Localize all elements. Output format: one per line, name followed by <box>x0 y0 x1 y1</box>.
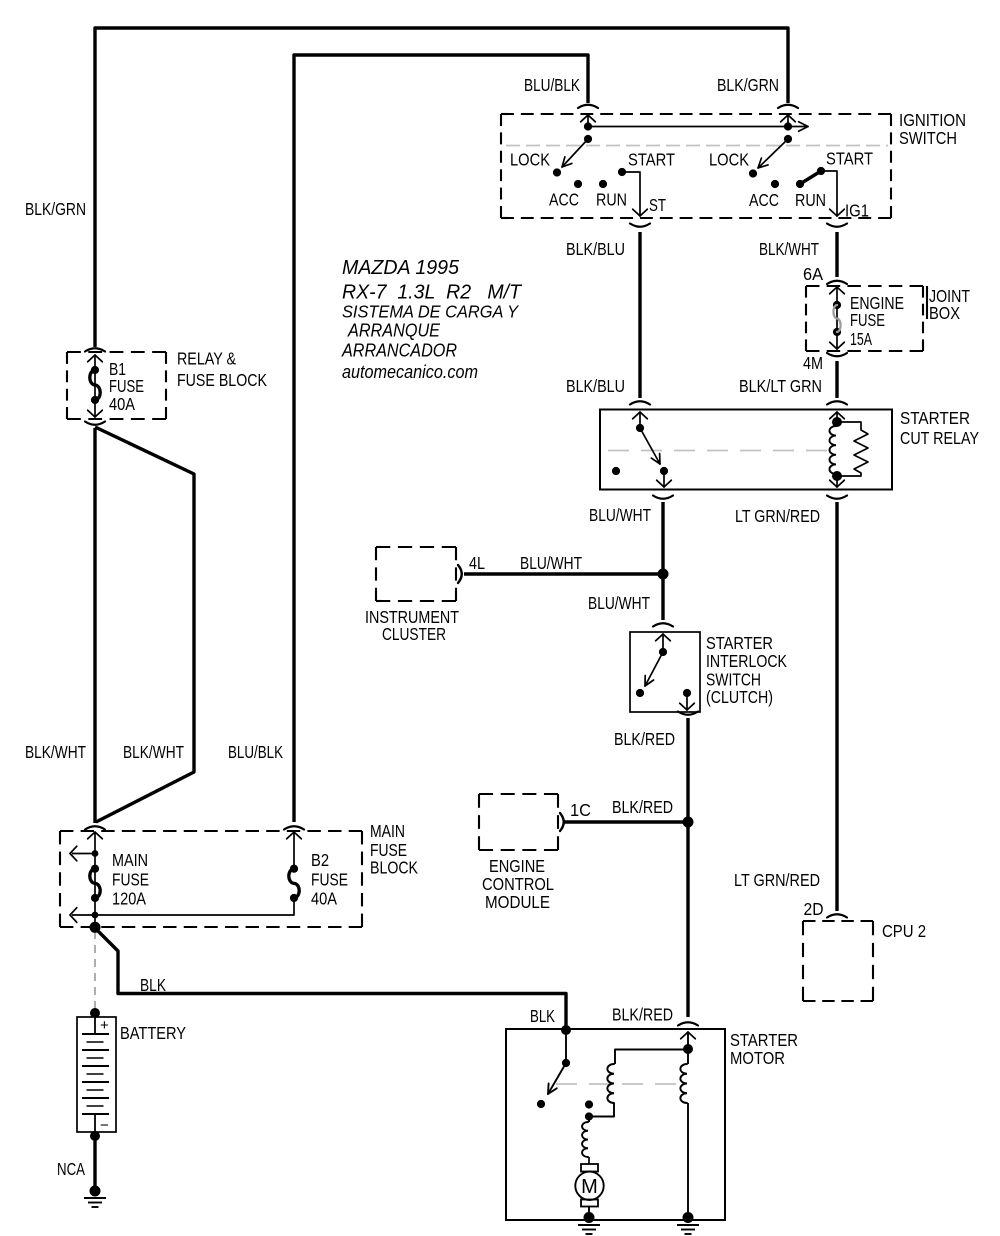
svg-text:START: START <box>826 149 873 169</box>
svg-text:1C: 1C <box>570 800 591 820</box>
svg-text:MOTOR: MOTOR <box>730 1048 785 1068</box>
svg-text:INTERLOCK: INTERLOCK <box>706 651 787 671</box>
svg-text:6A: 6A <box>803 264 823 284</box>
svg-text:B2: B2 <box>311 850 329 870</box>
svg-text:BLU/WHT: BLU/WHT <box>588 593 650 613</box>
svg-text:BLK/WHT: BLK/WHT <box>25 742 86 762</box>
svg-text:BLK/RED: BLK/RED <box>612 1005 673 1025</box>
svg-text:FUSE BLOCK: FUSE BLOCK <box>177 370 267 390</box>
svg-text:RUN: RUN <box>795 190 826 210</box>
svg-text:M: M <box>581 1176 598 1198</box>
svg-text:RX-7 1.3L R2 M/T: RX-7 1.3L R2 M/T <box>342 281 522 304</box>
svg-text:BLK/GRN: BLK/GRN <box>25 199 86 219</box>
svg-text:automecanico.com: automecanico.com <box>342 361 478 382</box>
svg-text:CONTROL: CONTROL <box>482 874 554 894</box>
svg-text:IG1: IG1 <box>845 201 869 221</box>
svg-text:2D: 2D <box>804 899 824 919</box>
svg-text:BLOCK: BLOCK <box>370 858 418 878</box>
svg-text:NCA: NCA <box>57 1159 85 1179</box>
svg-text:RUN: RUN <box>596 190 627 210</box>
svg-text:ARRANQUE: ARRANQUE <box>347 321 441 341</box>
svg-text:CLUSTER: CLUSTER <box>382 624 446 644</box>
svg-text:−: − <box>100 1117 109 1134</box>
svg-text:BLU/BLK: BLU/BLK <box>524 75 580 95</box>
svg-text:4M: 4M <box>803 353 823 373</box>
svg-text:STARTER: STARTER <box>900 408 970 428</box>
svg-text:FUSE: FUSE <box>850 310 885 330</box>
svg-text:BLK/WHT: BLK/WHT <box>759 239 819 259</box>
svg-text:+: + <box>100 1017 109 1034</box>
svg-text:IGNITION: IGNITION <box>899 110 966 130</box>
svg-text:FUSE: FUSE <box>311 870 348 890</box>
svg-text:START: START <box>628 150 675 170</box>
svg-text:15A: 15A <box>850 329 872 349</box>
svg-text:BLK: BLK <box>530 1006 555 1026</box>
svg-text:BLU/WHT: BLU/WHT <box>589 505 651 525</box>
svg-text:ARRANCADOR: ARRANCADOR <box>341 341 457 361</box>
svg-text:ACC: ACC <box>749 190 779 210</box>
svg-text:120A: 120A <box>112 889 146 909</box>
svg-text:LT GRN/RED: LT GRN/RED <box>734 870 820 890</box>
svg-text:BLK/GRN: BLK/GRN <box>717 75 779 95</box>
svg-text:MAZDA 1995: MAZDA 1995 <box>342 256 460 279</box>
svg-text:LT GRN/RED: LT GRN/RED <box>735 506 820 526</box>
svg-text:BLK/RED: BLK/RED <box>612 797 673 817</box>
svg-text:4L: 4L <box>469 553 485 573</box>
svg-text:ACC: ACC <box>549 190 579 210</box>
svg-text:SISTEMA DE CARGA Y: SISTEMA DE CARGA Y <box>342 302 519 322</box>
svg-text:SWITCH: SWITCH <box>899 128 957 148</box>
svg-text:MAIN: MAIN <box>112 850 148 870</box>
svg-text:BOX: BOX <box>929 303 960 323</box>
svg-text:CPU 2: CPU 2 <box>882 921 926 941</box>
svg-text:BLU/WHT: BLU/WHT <box>520 553 582 573</box>
svg-text:BLK/BLU: BLK/BLU <box>566 239 625 259</box>
svg-text:BLU/BLK: BLU/BLK <box>228 742 283 762</box>
svg-text:BLK/BLU: BLK/BLU <box>566 376 625 396</box>
svg-text:40A: 40A <box>311 889 337 909</box>
svg-text:BLK/WHT: BLK/WHT <box>123 742 184 762</box>
svg-text:STARTER: STARTER <box>706 633 773 653</box>
svg-text:LOCK: LOCK <box>709 150 749 170</box>
svg-text:ST: ST <box>649 195 666 215</box>
svg-text:MODULE: MODULE <box>485 892 550 912</box>
svg-text:MAIN: MAIN <box>370 821 405 841</box>
svg-text:FUSE: FUSE <box>109 376 144 396</box>
svg-text:BLK/LT GRN: BLK/LT GRN <box>739 376 822 396</box>
svg-text:FUSE: FUSE <box>112 870 149 890</box>
svg-text:ENGINE: ENGINE <box>489 856 545 876</box>
svg-text:BATTERY: BATTERY <box>120 1023 186 1043</box>
svg-text:STARTER: STARTER <box>730 1030 798 1050</box>
svg-text:CUT RELAY: CUT RELAY <box>900 428 979 448</box>
svg-text:(CLUTCH): (CLUTCH) <box>706 687 773 707</box>
svg-text:LOCK: LOCK <box>510 150 550 170</box>
svg-text:BLK: BLK <box>140 975 166 995</box>
svg-text:40A: 40A <box>109 394 135 414</box>
svg-text:RELAY &: RELAY & <box>177 349 236 369</box>
svg-text:BLK/RED: BLK/RED <box>614 729 675 749</box>
